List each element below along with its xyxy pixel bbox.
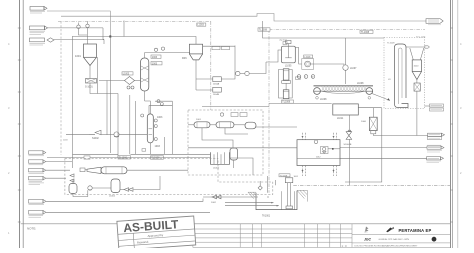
- wire column top to cyclone: [145, 53, 190, 58]
- wire feeders to riser: [221, 46, 235, 80]
- svg-text:1003: 1003: [152, 56, 158, 59]
- weir tank L-1002: [211, 152, 230, 169]
- node B inlet label box 2: [30, 26, 48, 34]
- ejector and heater L-1001: [80, 167, 188, 174]
- outlet label bottom left 2: [29, 211, 46, 218]
- svg-text:1001: 1001: [196, 119, 202, 121]
- rotary valve S-1004B hourglass: [344, 130, 352, 146]
- wire utility headers: [46, 161, 72, 163]
- capsule exchanger E-3: [245, 122, 256, 129]
- svg-text:PERTAMINA EP: PERTAMINA EP: [399, 228, 432, 233]
- feeder L-1004B: [196, 87, 221, 96]
- svg-text:NOTE:: NOTE:: [27, 227, 36, 231]
- svg-text:TL1008: TL1008: [361, 31, 370, 34]
- svg-text:S1002: S1002: [92, 138, 99, 140]
- valve S-1002 left of column2: [89, 130, 101, 140]
- sump pump vertical: [285, 178, 293, 209]
- svg-text:JGC: JGC: [364, 238, 372, 242]
- wire vessel inlet: [266, 50, 282, 62]
- dotted enclosure bucket elevator: [384, 38, 425, 109]
- wire column bottom: [144, 91, 146, 101]
- wire outlet 1: [46, 199, 203, 202]
- wire vertical run x110: [109, 37, 111, 154]
- wire utilities internal: [73, 190, 88, 196]
- diamond fitting above sump rim: [258, 181, 262, 190]
- flexible connector crossed box: [414, 80, 420, 136]
- wire bottom line y197: [203, 196, 258, 198]
- wire to separator top: [79, 28, 88, 35]
- diamond mixer M-1003: [122, 72, 135, 85]
- pertamina arrow logo: [386, 227, 394, 233]
- wire line to right flags y134: [373, 135, 428, 137]
- wire vertical run x72: [72, 36, 74, 168]
- drum L-1006B: [283, 90, 291, 105]
- wire vertical run x118: [117, 94, 119, 158]
- svg-text:cepu: cepu: [364, 232, 368, 234]
- bucket elevator L-1009: [388, 44, 408, 108]
- wire vertical x124: [123, 21, 125, 37]
- small drum in dashed box: [230, 148, 238, 168]
- svg-text:L1006: L1006: [304, 57, 311, 59]
- wire vertical run x107: [106, 81, 108, 135]
- svg-text:1006: 1006: [361, 121, 367, 123]
- svg-text:TL1008: TL1008: [259, 29, 268, 32]
- feeder L-1004A: [196, 77, 221, 86]
- pump P-1002: [114, 132, 119, 137]
- svg-text:TL1008: TL1008: [387, 43, 395, 45]
- wire line to right flags y157: [340, 157, 427, 159]
- svg-text:1004A: 1004A: [213, 82, 220, 85]
- as-built stamp: [117, 216, 196, 250]
- svg-text:L1011: L1011: [337, 118, 344, 120]
- svg-text:DOC NO. PROCESS FLOW DIAGRAM (: DOC NO. PROCESS FLOW DIAGRAM (PFD) SULPH…: [355, 244, 419, 247]
- pump L-1007: [343, 65, 357, 70]
- dash-dot line right of sump: [293, 184, 450, 186]
- wire exchanger train: [188, 124, 194, 126]
- wire feed down to belt: [345, 70, 347, 84]
- wire separator outlet down: [90, 83, 118, 94]
- instrument row FE TE WE: [297, 75, 315, 79]
- iso badge dark circle: [432, 237, 437, 242]
- outlet label bottom left 1: [29, 200, 46, 205]
- wire vessel outlet to pump: [295, 48, 302, 65]
- valve fittings at left edge: [70, 174, 74, 182]
- pertamina title block: [352, 235, 451, 243]
- frame left double border: [18, 0, 23, 248]
- svg-text:1003: 1003: [152, 62, 158, 65]
- agitated vessel L-1005: [282, 40, 296, 67]
- wires in dashed box vertical: [202, 128, 233, 148]
- wire line to right flags y146.5: [340, 146, 427, 148]
- wire header to column: [103, 28, 104, 39]
- label TL1006: [118, 156, 131, 160]
- margin zone letters: [8, 42, 462, 235]
- dash-dot limit line horizontal y29.4: [269, 28, 425, 30]
- svg-text:L1001: L1001: [109, 196, 116, 198]
- wire into column2: [145, 101, 151, 114]
- wire hopper line down: [372, 108, 374, 118]
- capsule exchanger E-2: [216, 122, 234, 128]
- svg-text:1010: 1010: [414, 66, 420, 68]
- utility labels left cluster: [29, 151, 46, 185]
- wire from inlet C to separator: [54, 40, 104, 44]
- svg-text:S1004B: S1004B: [344, 144, 352, 146]
- drum small B: [109, 179, 120, 198]
- wire elevator boot down line: [345, 108, 382, 182]
- dash-dot battery limit top left: [58, 20, 211, 22]
- wire cyclone underflow: [195, 60, 197, 90]
- label TL1008 lower: [279, 174, 290, 178]
- frame right double border: [451, 0, 458, 248]
- instrument TI on overhead: [154, 47, 164, 51]
- svg-text:L1002: L1002: [213, 168, 220, 170]
- hopper D-1010: [412, 60, 421, 80]
- rotary valve S-1001 below separator: [85, 66, 97, 89]
- small boxes in dashed box: [220, 113, 247, 117]
- svg-text:1004B: 1004B: [213, 94, 220, 96]
- pumps P-1004 pair: [236, 62, 266, 76]
- instrument PI-2 above separator: [86, 22, 89, 28]
- vertical dashed limit line left: [60, 21, 62, 155]
- svg-text:L1008: L1008: [320, 99, 327, 101]
- off-page labels right of elevator: [425, 104, 444, 111]
- valve in utilities: [124, 188, 133, 192]
- wire cyclone top right: [203, 45, 235, 47]
- wire capsule overhead lines: [188, 107, 297, 148]
- svg-text:L1007: L1007: [350, 68, 357, 70]
- svg-text:L1003: L1003: [197, 25, 204, 27]
- title block revision table: [193, 224, 451, 248]
- notes area separator line: [21, 223, 451, 225]
- svg-text:1003: 1003: [157, 116, 163, 119]
- small valve on bottom line: [211, 195, 221, 204]
- off-page flag right 1: [428, 133, 445, 139]
- wire outlet 2: [46, 211, 210, 213]
- charge label small top: [279, 40, 287, 45]
- wire pump discharge up-right: [310, 64, 344, 65]
- column C-1003B second column: [141, 100, 173, 155]
- wire bottoms line: [66, 134, 89, 136]
- wire weir tank outlet: [230, 158, 254, 175]
- cyclone dryer D-1004: [182, 44, 203, 60]
- wire through mixer: [99, 80, 125, 82]
- capsule exchanger E-1: [194, 119, 210, 128]
- instrument PI-1 above separator: [77, 23, 80, 29]
- dashed air lines above dryer: [303, 133, 337, 140]
- svg-text:W: W: [312, 77, 314, 79]
- wire feed line from inlet A: [47, 11, 426, 37]
- wire header y157 long: [47, 157, 211, 159]
- svg-text:TL1006: TL1006: [119, 156, 128, 159]
- dashed air lines below dryer: [303, 166, 337, 177]
- utilities dashed enclosure: [65, 158, 273, 194]
- belt conveyor L-1008: [314, 85, 374, 101]
- wire long line y103.4 from limit to L-1011: [269, 102, 332, 104]
- wire lines into sump: [225, 202, 274, 204]
- wire belt discharge diagonal: [372, 94, 390, 101]
- drum small A: [69, 180, 77, 194]
- dash-dot limit line vertical x210: [210, 21, 212, 110]
- label TL1008 left end: [258, 28, 270, 32]
- svg-text:L1003: L1003: [123, 73, 130, 75]
- sump pit TK-1001: [248, 190, 307, 217]
- tag label above cyclone: [197, 23, 206, 27]
- wire header TL1006: [73, 153, 119, 155]
- svg-text:1002: 1002: [211, 202, 217, 204]
- node A feed inlet label box: [30, 7, 47, 14]
- svg-text:1 : 0: 1 : 0: [342, 244, 348, 248]
- svg-text:1001: 1001: [75, 54, 81, 58]
- svg-text:GUNDIH CPP GAS DEV - BPN: GUNDIH CPP GAS DEV - BPN: [379, 238, 410, 241]
- wire vertical run x97: [96, 57, 98, 93]
- wire top feed run y38: [263, 21, 385, 38]
- node C inlet label box 3 with diamond: [30, 38, 55, 45]
- wire verticals column area to header: [130, 95, 165, 154]
- tag box on header: [84, 156, 90, 159]
- dash-dot limit line vertical x269: [268, 29, 270, 192]
- wire elevator top to hopper: [406, 46, 429, 60]
- svg-text:1003: 1003: [155, 145, 161, 148]
- instrument bubbles under mixer: [127, 86, 134, 89]
- off-page connector flag top right TL-2001: [426, 19, 443, 25]
- drum L-1006A: [282, 69, 291, 83]
- svg-text:TK1001: TK1001: [262, 216, 271, 218]
- svg-text:Riswandi: Riswandi: [137, 240, 149, 245]
- pump circle in utilities: [88, 186, 92, 190]
- junction dot node D: [109, 36, 111, 38]
- dashed box process battery mid: [188, 110, 263, 175]
- wire vertical feeds to sump pump: [267, 176, 269, 193]
- label TL1006 second: [151, 156, 164, 160]
- wire drum bypass loop: [279, 70, 301, 99]
- separator D-1001: [75, 44, 97, 66]
- small fitting pair left of column2 outlet: [142, 149, 146, 152]
- small arrows on air lines: [302, 136, 335, 172]
- svg-text:TL1008: TL1008: [282, 102, 291, 104]
- wire across separator top: [73, 37, 197, 45]
- svg-text:TL1006: TL1006: [151, 157, 160, 160]
- wire rotary valve to flag line: [348, 139, 350, 185]
- svg-text:L1008: L1008: [357, 83, 364, 85]
- rotary feeder S-1004A: [361, 117, 377, 134]
- label TL1008 mid: [282, 100, 294, 104]
- wire from inlet B: [48, 27, 104, 29]
- svg-text:D06: D06: [182, 57, 187, 60]
- svg-text:L1005: L1005: [285, 66, 292, 68]
- wire bin to rotary valve: [348, 115, 350, 132]
- label L-1008 above belt: [357, 83, 364, 85]
- column C-1003: [141, 58, 149, 91]
- emblem small bird: [364, 227, 369, 234]
- off-page flag right 3: [427, 157, 444, 163]
- label boxes right of cyclone: [212, 47, 230, 50]
- svg-text:S-1001: S-1001: [85, 86, 93, 89]
- dryer F-1001: [297, 140, 340, 166]
- pump P-1006: [302, 55, 314, 69]
- bin L-1011: [333, 104, 359, 120]
- svg-text:TL1008: TL1008: [280, 175, 288, 177]
- label L-1003: [151, 55, 162, 65]
- off-page flag right 2: [427, 145, 444, 152]
- label TL1008 on limit line: [360, 30, 373, 34]
